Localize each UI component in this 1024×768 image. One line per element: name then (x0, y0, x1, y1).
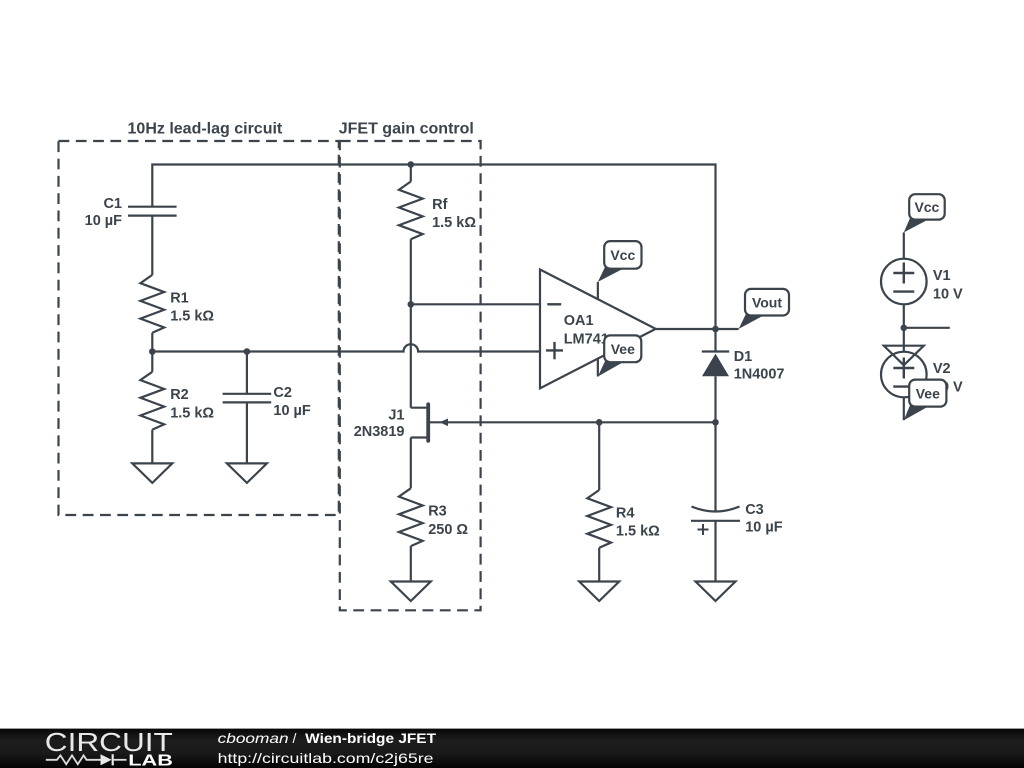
svg-text:R1: R1 (170, 290, 189, 306)
node D1/C3 junction (712, 419, 719, 426)
ground below C3 (696, 581, 736, 601)
svg-text:V2: V2 (933, 361, 951, 377)
wire R2 to ground (151, 430, 153, 464)
svg-text:Vcc: Vcc (610, 247, 635, 263)
CircuitLab logo (45, 727, 173, 768)
voltage source V1 10V (881, 259, 963, 305)
svg-text:V1: V1 (933, 268, 951, 284)
ground below R4 (579, 581, 619, 601)
capacitor C1 (85, 196, 177, 229)
node Rf top junction (408, 161, 415, 168)
node minus input junction (408, 301, 415, 308)
dashed box 10Hz lead-lag circuit (59, 141, 339, 515)
svg-text:1N4007: 1N4007 (734, 367, 785, 383)
ground between V1 and V2 (884, 346, 924, 366)
wire C2 branch (246, 352, 248, 394)
wire stub right of mid node (904, 327, 950, 329)
resistor R3 (399, 488, 469, 546)
op-amp OA1 LM741 (540, 270, 656, 389)
svg-text:10Hz lead-lag circuit: 10Hz lead-lag circuit (128, 121, 283, 138)
wire R4 branch (598, 422, 600, 581)
svg-text:Vout: Vout (752, 295, 782, 311)
svg-text:Vcc: Vcc (914, 199, 939, 215)
node V1/V2 junction (901, 325, 908, 332)
svg-text:250 Ω: 250 Ω (428, 522, 468, 538)
Vout flag (739, 289, 789, 329)
svg-text:10 V: 10 V (933, 286, 963, 302)
svg-text:/: / (293, 730, 297, 746)
svg-text:Vee: Vee (916, 386, 940, 402)
svg-text:10 µF: 10 µF (85, 213, 123, 229)
wire JFET source to R3 and R3 to ground (410, 438, 412, 582)
svg-text:Vee: Vee (611, 341, 635, 357)
resistor Rf (399, 182, 476, 240)
svg-text:cbooman: cbooman (218, 730, 289, 746)
svg-text:10 µF: 10 µF (273, 403, 311, 419)
svg-text:LAB: LAB (128, 753, 173, 768)
svg-text:LM741: LM741 (564, 332, 609, 348)
svg-text:Wien-bridge JFET: Wien-bridge JFET (305, 730, 436, 746)
wire C2 to ground (246, 402, 248, 463)
svg-text:Rf: Rf (432, 197, 447, 213)
capacitor C3 polarized (691, 502, 783, 536)
svg-text:C2: C2 (273, 385, 292, 401)
wire V2 to Vee flag (903, 397, 905, 420)
wire mid-left net R1/R2/C2 to op-amp + input with hop over JFET column (152, 333, 540, 372)
Vcc flag at V1 (904, 194, 945, 232)
wire mid node to ground (903, 328, 905, 352)
svg-text:R4: R4 (616, 505, 635, 521)
svg-text:http://circuitlab.com/c2j65re: http://circuitlab.com/c2j65re (218, 750, 434, 766)
Vee flag at V2 (904, 380, 947, 421)
svg-text:D1: D1 (734, 349, 753, 365)
svg-text:1.5 kΩ: 1.5 kΩ (170, 309, 214, 325)
Vcc flag at op-amp (598, 241, 642, 282)
svg-text:J1: J1 (388, 407, 404, 423)
svg-text:R3: R3 (428, 504, 447, 520)
wire Rf branch and minus input net (411, 165, 540, 408)
svg-text:JFET gain control: JFET gain control (339, 121, 474, 138)
wire Vcc flag to V1 (903, 232, 905, 258)
wire top rail from C1 to output column (152, 165, 715, 330)
ground below R2 (132, 463, 172, 483)
ground below C2 (227, 463, 267, 483)
svg-text:1.5 kΩ: 1.5 kΩ (432, 215, 476, 231)
node Vout junction (712, 326, 719, 333)
svg-text:1.5 kΩ: 1.5 kΩ (170, 406, 214, 422)
wire op-amp Vee pin stub (597, 359, 599, 377)
svg-text:10 µF: 10 µF (745, 520, 783, 536)
svg-text:R2: R2 (170, 387, 189, 403)
node C2 junction (244, 348, 251, 355)
node R1/R2 junction (149, 348, 156, 355)
wire C1 to R1 (151, 216, 153, 275)
node R4 junction (596, 419, 603, 426)
resistor R2 (140, 372, 214, 430)
Vee flag at op-amp (598, 335, 641, 376)
wire V1 to mid node (903, 304, 905, 328)
ground below R3 (391, 581, 431, 601)
svg-text:C1: C1 (103, 196, 122, 212)
wire op-amp Vcc pin stub (597, 282, 599, 299)
resistor R4 (587, 490, 660, 548)
wire op-amp output to Vout and D1 (656, 329, 739, 582)
voltage source V2 10V (881, 352, 963, 398)
svg-text:OA1: OA1 (564, 313, 594, 329)
svg-text:2N3819: 2N3819 (354, 424, 405, 440)
svg-text:C3: C3 (745, 502, 764, 518)
capacitor C2 (223, 385, 311, 419)
transistor J1 N-JFET 2N3819 (354, 404, 448, 441)
diode D1 1N4007 (702, 349, 785, 383)
dashed box JFET gain control (340, 141, 481, 610)
resistor R1 (140, 275, 214, 333)
svg-text:1.5 kΩ: 1.5 kΩ (616, 524, 660, 540)
wire gate feedback net (428, 421, 715, 423)
